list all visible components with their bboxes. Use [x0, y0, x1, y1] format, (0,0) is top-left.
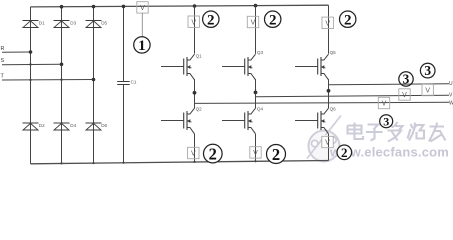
wire inverter leg U (Q1/Q2) — [194, 6, 196, 162]
node T junction — [92, 78, 96, 82]
svg-text:C1: C1 — [131, 80, 137, 85]
svg-text:S: S — [1, 58, 5, 64]
transistor Q5 — [295, 54, 329, 80]
capacitor C1 — [117, 81, 130, 83]
diode D2 — [23, 123, 39, 130]
svg-text:2: 2 — [344, 12, 352, 28]
node 3 circled lower — [380, 115, 393, 129]
node junction Q1 top — [193, 4, 197, 8]
node junction C1 top — [122, 5, 126, 9]
probe box V on W line — [378, 97, 389, 108]
svg-text:2: 2 — [269, 12, 277, 28]
node 3 circled right — [420, 63, 435, 78]
node 2 circled at Q4 — [267, 145, 286, 164]
svg-text:W: W — [449, 100, 453, 106]
svg-text:Q3: Q3 — [257, 50, 264, 55]
watermark logo circle — [307, 116, 341, 162]
svg-text:D3: D3 — [70, 21, 76, 26]
wire output W phase — [195, 102, 450, 103]
node V phase junction — [254, 91, 258, 95]
node 2 circled at Q1 — [203, 11, 219, 28]
diode D3 — [54, 21, 70, 28]
svg-text:Q1: Q1 — [196, 54, 203, 59]
watermark text 电子发烧友 — [348, 122, 446, 142]
wire inverter leg V (Q3/Q4) — [255, 6, 257, 162]
wire input T — [2, 79, 94, 82]
wire rectifier leg 2 (D3/D4 column) — [61, 7, 63, 164]
svg-text:D1: D1 — [39, 21, 45, 26]
probe box V at Q5 collector — [322, 17, 333, 28]
transistor Q6 — [295, 108, 329, 134]
node 1 circled — [134, 37, 150, 55]
wire capacitor branch — [123, 6, 125, 81]
svg-text:R: R — [1, 46, 5, 52]
svg-text:D2: D2 — [39, 123, 45, 128]
svg-text:U: U — [449, 81, 453, 87]
node U phase junction — [193, 91, 197, 95]
wire inverter leg W (Q5/Q6) — [328, 5, 330, 160]
svg-text:2: 2 — [209, 144, 217, 163]
transistor Q2 — [161, 108, 195, 134]
svg-text:D4: D4 — [70, 123, 76, 128]
svg-text:2: 2 — [207, 12, 215, 28]
wire top DC+ rail — [31, 5, 329, 7]
node bottom rail junctions — [60, 160, 256, 164]
node S junction — [60, 63, 64, 67]
probe box V at Q4 emitter — [250, 147, 261, 158]
probe box backing at Q6 — [322, 135, 334, 149]
diode D4 — [54, 123, 70, 130]
node 2 circled at Q6 — [337, 145, 352, 160]
node 2 circled at Q5 — [340, 11, 356, 28]
svg-text:Q4: Q4 — [257, 107, 264, 112]
svg-text:D6: D6 — [101, 123, 107, 128]
node 3 circled left — [399, 72, 413, 87]
wire input R — [2, 51, 31, 53]
svg-text:V: V — [449, 92, 453, 98]
transistor Q3 — [222, 54, 256, 80]
probe box V at Q1 collector — [188, 16, 199, 27]
svg-text:1: 1 — [138, 38, 146, 54]
transistor Q1 — [161, 54, 195, 80]
node W phase junction — [327, 89, 331, 93]
wire bottom DC- rail — [31, 161, 329, 164]
svg-text:2: 2 — [272, 145, 280, 164]
svg-text:Q5: Q5 — [330, 50, 337, 55]
svg-text:D5: D5 — [101, 21, 107, 26]
node 2 circled at Q3 — [265, 11, 281, 28]
node junction D5 top — [92, 5, 96, 9]
probe box V at Q3 collector — [247, 16, 258, 27]
probe box V at Q6 emitter — [322, 136, 333, 147]
wire input S — [2, 63, 62, 65]
wire rectifier leg 1 (D1/D2 column) — [30, 7, 32, 164]
probe box V at Q2 emitter — [188, 147, 199, 158]
svg-text:2: 2 — [341, 145, 348, 160]
wire output V phase — [256, 95, 450, 97]
svg-text:3: 3 — [383, 115, 389, 129]
probe box V on V line — [399, 89, 410, 100]
node 2 circled at Q2 — [204, 144, 223, 163]
probe box V on U line — [422, 84, 433, 95]
node R junction — [29, 50, 33, 54]
diode D1 — [23, 21, 39, 28]
svg-text:3: 3 — [403, 72, 410, 87]
diode D6 — [86, 123, 102, 130]
node junction Q3 top — [254, 4, 258, 8]
probe box V on DC+ rail — [137, 2, 148, 13]
svg-text:T: T — [1, 73, 5, 79]
svg-text:Q2: Q2 — [196, 107, 203, 112]
diode D5 — [86, 21, 102, 28]
node junction D3 top — [60, 5, 64, 9]
transistor Q4 — [222, 108, 256, 134]
svg-text:Q6: Q6 — [330, 107, 337, 112]
wire rectifier leg 3 (D5/D6 column) — [93, 7, 95, 164]
svg-text:3: 3 — [424, 63, 431, 78]
wire output U phase — [329, 84, 450, 85]
